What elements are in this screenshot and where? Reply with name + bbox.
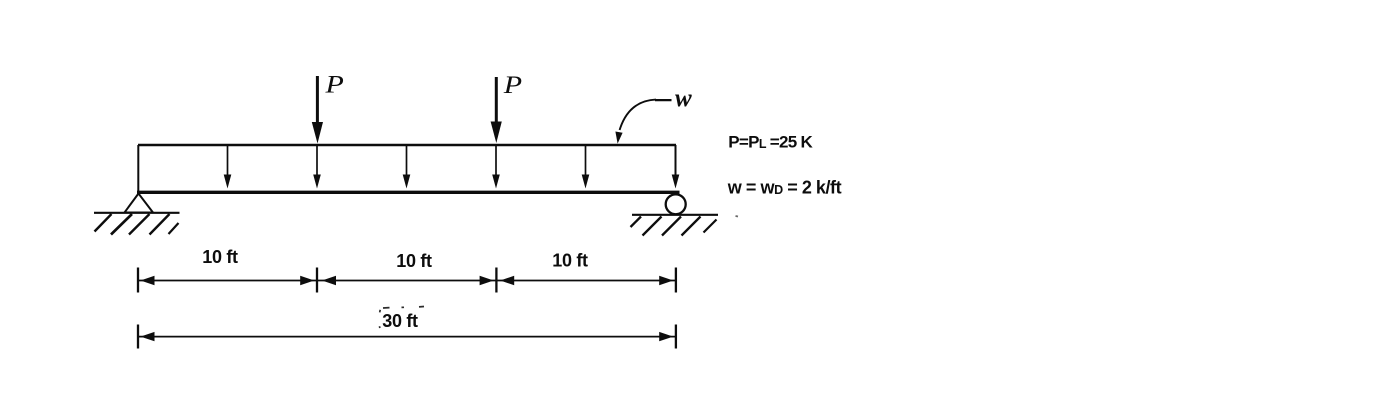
ground hatch right 4 bbox=[682, 217, 701, 236]
svg-text:w: w bbox=[675, 85, 692, 112]
pin support triangle (left) bbox=[125, 194, 154, 213]
distributed load arrow 2 bbox=[313, 145, 321, 189]
distributed load arrow 3 bbox=[403, 145, 411, 189]
dim tick 2 bbox=[316, 268, 318, 293]
w leader line bbox=[615, 100, 671, 144]
ground hatch left 3 bbox=[129, 214, 150, 235]
svg-text:w = wD = 2 k/ft: w = wD = 2 k/ft bbox=[727, 177, 842, 197]
dim2 tick left bbox=[137, 325, 139, 349]
roller support circle (right) bbox=[666, 194, 686, 214]
ground hatch left 4 bbox=[150, 214, 170, 235]
scan artifact dot right of roller bbox=[736, 215, 739, 218]
dim2 tick right bbox=[675, 325, 677, 349]
dim arrows segment 1 bbox=[141, 276, 155, 285]
svg-text:P: P bbox=[324, 70, 344, 98]
dimension line row 1 bbox=[139, 280, 675, 282]
scan artifact marks above 30 ft bbox=[379, 307, 424, 329]
ground hatch left 1 bbox=[95, 214, 112, 232]
ground hatch left 5 (short) bbox=[169, 223, 179, 234]
dim tick 3 bbox=[495, 268, 497, 293]
dimension line row 2 bbox=[139, 336, 675, 338]
ground hatch right 2 bbox=[643, 217, 662, 236]
svg-text:P=PL =25 K: P=PL =25 K bbox=[728, 133, 813, 152]
svg-text:P: P bbox=[503, 70, 523, 98]
svg-text:10 ft: 10 ft bbox=[552, 251, 588, 271]
svg-text:10 ft: 10 ft bbox=[202, 247, 238, 267]
ground line left bbox=[94, 212, 180, 214]
dim2 arrows bbox=[141, 332, 155, 341]
point load P2 arrow bbox=[491, 77, 502, 143]
distributed load arrow 6 (right edge) bbox=[672, 145, 680, 189]
wire: left edge of load block bbox=[137, 145, 139, 192]
ground hatch right 3 bbox=[662, 217, 681, 236]
distributed load arrow 1 bbox=[224, 145, 232, 189]
ground hatch right 5 (short) bbox=[704, 220, 717, 233]
ground hatch left 2 bbox=[111, 214, 132, 235]
beam bbox=[137, 191, 680, 194]
dim tick 1 bbox=[137, 268, 139, 293]
distributed load arrow 4 bbox=[492, 145, 500, 189]
distributed load top line bbox=[138, 144, 676, 146]
point load P1 arrow bbox=[312, 76, 323, 144]
distributed load arrow 5 bbox=[582, 145, 590, 189]
dim tick 4 bbox=[675, 268, 677, 293]
dim arrows segment 2 bbox=[322, 276, 336, 285]
ground line right bbox=[632, 214, 718, 216]
dim arrows segment 3 bbox=[500, 276, 514, 285]
svg-text:10 ft: 10 ft bbox=[396, 251, 432, 271]
ground hatch right 1 bbox=[631, 217, 642, 228]
svg-text:30 ft: 30 ft bbox=[382, 311, 418, 331]
